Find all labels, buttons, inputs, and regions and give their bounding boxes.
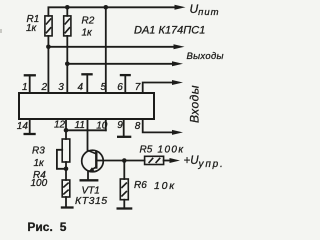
svg-text:R5: R5 xyxy=(140,144,153,155)
wire: R5 right lead to arrow xyxy=(164,160,171,162)
resistor R3 (trimmer) xyxy=(62,139,70,162)
node: pin 5 to supply rail junction xyxy=(104,5,109,10)
svg-text:1к: 1к xyxy=(82,27,94,38)
wire: R3 wiper tap to lower lead xyxy=(57,150,66,169)
wire: R2 bottom lead to pin 3 xyxy=(66,36,68,93)
arrow: input 2 xyxy=(172,130,183,135)
resistor R4 xyxy=(62,180,70,197)
svg-text:10: 10 xyxy=(96,121,108,132)
transistor VT1 xyxy=(82,150,104,172)
svg-text:100к: 100к xyxy=(158,144,185,155)
wire: pin 7 input xyxy=(143,83,173,94)
wire: R4 bottom lead xyxy=(65,197,67,208)
arrow: output 1 xyxy=(174,44,185,49)
resistor R2 xyxy=(64,16,71,36)
svg-text:Входы: Входы xyxy=(188,85,202,123)
wire: VT1 base to R5/R6 node xyxy=(96,160,124,162)
scan artifacts on left edge xyxy=(0,29,2,33)
arrow: supply output Uпит xyxy=(175,5,186,10)
ground pin 4 (stub) xyxy=(86,74,88,93)
ground pin 1 (stub) xyxy=(29,75,31,93)
svg-text:6: 6 xyxy=(117,82,123,93)
svg-text:8: 8 xyxy=(135,121,141,132)
node: R2 to supply rail junction xyxy=(65,5,70,10)
arrow: output 2 xyxy=(172,61,183,66)
wire: node down to R6 xyxy=(123,161,125,180)
wire: pin 12 to pin 10 link xyxy=(66,129,106,131)
svg-text:100: 100 xyxy=(31,178,48,189)
ground bar pin 1 xyxy=(24,74,36,76)
node: R3 tap junction xyxy=(64,167,69,172)
svg-text:Выходы: Выходы xyxy=(187,51,224,62)
svg-text:3: 3 xyxy=(58,82,64,93)
ground pin 6 (stub) xyxy=(124,75,126,93)
resistor R5 xyxy=(145,156,164,164)
wire: output 1 from pin 2 node to arrow xyxy=(48,46,174,48)
ground pin 9 (stub) xyxy=(123,119,125,137)
wire: +U supply rail from R1 top to arrow xyxy=(48,7,175,16)
wire: R6 bottom lead xyxy=(123,200,125,209)
wire: output 2 from pin 3 node to arrow xyxy=(67,63,173,65)
wire: pin 12 down to R3 xyxy=(65,119,67,139)
resistor R6 xyxy=(120,179,128,200)
ground pin 14 (stub) xyxy=(29,119,31,134)
ground bar VT1 emitter xyxy=(80,179,99,181)
ground bar R6 xyxy=(117,207,133,209)
arrow: control voltage xyxy=(170,158,181,163)
wire: R1 bottom lead to pin 2 xyxy=(47,36,49,93)
svg-text:1к: 1к xyxy=(26,23,38,34)
svg-text:КТ315: КТ315 xyxy=(75,195,108,207)
svg-text:5: 5 xyxy=(101,82,107,93)
svg-text:R6: R6 xyxy=(134,180,147,191)
ground bar pin 14 xyxy=(24,133,36,135)
ground bar pin 9 xyxy=(117,136,131,138)
wire: R3 bottom to R4 top xyxy=(65,162,67,180)
wire: VT1 emitter lead xyxy=(87,172,89,180)
wire: pin 11 to collector xyxy=(87,119,89,151)
svg-text:12: 12 xyxy=(54,120,66,131)
arrow: input 1 xyxy=(172,80,183,85)
ground bar pin 4 xyxy=(81,73,92,75)
svg-text:R3: R3 xyxy=(32,145,45,156)
resistor R1 xyxy=(45,16,52,36)
svg-text:1: 1 xyxy=(22,82,28,93)
wire: node to R5 left lead xyxy=(124,160,144,162)
svg-text:Рис.: Рис. xyxy=(27,220,52,234)
node: base/R5/R6 junction xyxy=(122,158,127,163)
wire: R2 top lead xyxy=(66,7,68,16)
op-amp/IC body DA1 xyxy=(19,93,154,119)
svg-text:9: 9 xyxy=(117,120,123,131)
node: pin 12 junction xyxy=(64,128,69,133)
node: output 2 at pin 3 xyxy=(65,62,70,67)
svg-text:7: 7 xyxy=(135,82,141,93)
ground bar pin 6 xyxy=(120,74,131,76)
ground bar R4 xyxy=(61,206,74,208)
svg-text:14: 14 xyxy=(17,121,29,132)
svg-text:11: 11 xyxy=(75,120,85,131)
svg-text:2: 2 xyxy=(41,82,48,93)
wire: pin 5 to supply rail xyxy=(105,7,107,93)
svg-text:4: 4 xyxy=(78,82,84,93)
svg-text:10к: 10к xyxy=(154,180,176,192)
svg-text:DA1 К174ПС1: DA1 К174ПС1 xyxy=(134,24,205,36)
paper background xyxy=(0,0,238,240)
wire: pin 8 input xyxy=(143,119,173,132)
svg-text:1к: 1к xyxy=(34,158,46,169)
wire: pin 10 stub xyxy=(105,119,107,130)
svg-text:5: 5 xyxy=(60,220,67,234)
svg-text:R2: R2 xyxy=(82,16,95,27)
node: output 1 at pin 2 xyxy=(46,45,51,50)
